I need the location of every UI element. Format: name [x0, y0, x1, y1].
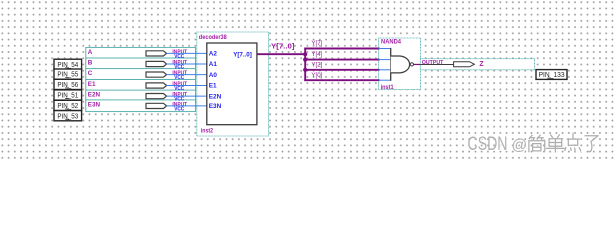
svg-text:@: @ [512, 137, 528, 154]
svg-text:Y[7]: Y[7] [311, 40, 322, 47]
svg-text:E1: E1 [209, 83, 217, 90]
svg-text:OUTPUT: OUTPUT [422, 60, 444, 66]
svg-text:NAND4: NAND4 [381, 39, 401, 46]
wire E1: input pin to decoder port E1 [166, 85, 207, 87]
bus tap wire Y[4] [304, 59, 379, 61]
input pin arrow shape (A) [146, 51, 167, 56]
svg-text:Y[7..0]: Y[7..0] [233, 51, 252, 58]
location assignment box PIN_53 [54, 111, 82, 121]
svg-text:Z: Z [479, 61, 484, 68]
svg-text:A1: A1 [209, 61, 218, 68]
svg-text:Y[4]: Y[4] [311, 51, 322, 58]
svg-text:Y[0]: Y[0] [311, 72, 322, 79]
svg-text:B: B [88, 59, 93, 66]
NAND4 input bar (extended body edge) [390, 48, 392, 81]
location assignment box PIN_54 [54, 59, 82, 69]
svg-text:A2: A2 [209, 51, 218, 58]
input pin arrow shape (E3N) [146, 103, 167, 108]
svg-text:E2N: E2N [88, 92, 101, 99]
input pin arrow shape (E2N) [146, 94, 167, 99]
svg-text:E3N: E3N [209, 103, 222, 110]
NAND4 input pin stub 1 [379, 48, 391, 50]
bus vertical segment [304, 48, 306, 82]
svg-text:CSDN: CSDN [468, 134, 508, 155]
NAND4 inst1 bounding box [379, 38, 421, 90]
bus tap wire Y[0] [304, 79, 379, 81]
bus wire Y[7..0] from decoder output [257, 53, 305, 55]
location assignment box PIN_133 [536, 70, 567, 80]
input pin arrow shape (B) [146, 61, 167, 66]
svg-text:VCC: VCC [174, 107, 184, 113]
location assignment box PIN_56 [54, 79, 82, 89]
bus junction dot at main bus [303, 52, 307, 56]
svg-text:E2N: E2N [209, 93, 222, 100]
svg-text:C: C [88, 70, 93, 77]
wire from NAND4 output to output pin [414, 63, 421, 65]
location assignment box PIN_52 [54, 100, 82, 110]
svg-text:inst2: inst2 [201, 128, 214, 135]
input pin symbol A bounding box [86, 47, 196, 59]
svg-text:A: A [88, 49, 93, 56]
wire A: input pin to decoder port A2 [166, 52, 207, 54]
location assignment box PIN_51 [54, 90, 82, 100]
bus junction dot at Y[4] tap [303, 58, 307, 62]
input pin symbol B bounding box [86, 58, 196, 70]
bus tap wire Y[2] [304, 69, 379, 71]
input pin symbol E3N bounding box [86, 100, 196, 112]
NAND4 input pin stub 2 [379, 59, 391, 61]
watermark chinese characters [529, 133, 599, 153]
decoder38 body rectangle [207, 43, 257, 125]
svg-text:Y[7..0]: Y[7..0] [271, 44, 295, 51]
svg-text:E1: E1 [88, 81, 96, 88]
wire B: input pin to decoder port A1 [166, 63, 207, 65]
wire E2N: input pin to decoder port E2N [166, 95, 207, 97]
location assignment box PIN_55 [54, 69, 82, 79]
input pin symbol E1 bounding box [86, 80, 196, 92]
NAND4 input pin stub 4 [379, 79, 391, 81]
bus junction dot at Y[2] tap [303, 68, 307, 72]
wire E3N: input pin to decoder port E3N [166, 105, 207, 107]
svg-text:A0: A0 [209, 72, 218, 79]
input pin symbol C bounding box [86, 69, 196, 81]
NAND4 inversion bubble [410, 63, 413, 66]
bus tap wire Y[7] [304, 48, 379, 50]
output pin arrow shape [454, 62, 475, 67]
input pin symbol E2N bounding box [86, 90, 196, 102]
output pin lead line [420, 63, 453, 65]
output pin Z bounding box [420, 59, 534, 70]
NAND4 gate body [391, 56, 410, 73]
NAND4 input pin stub 3 [379, 69, 391, 71]
decoder38 inst2 bounding box [197, 32, 269, 136]
input pin arrow shape (E1) [146, 83, 167, 88]
watermark CSDN @ [468, 134, 529, 156]
input pin arrow shape (C) [146, 72, 167, 77]
svg-text:E3N: E3N [88, 101, 101, 108]
svg-text:Y[2]: Y[2] [311, 61, 322, 68]
svg-text:inst1: inst1 [381, 84, 394, 91]
svg-text:decoder38: decoder38 [199, 34, 227, 41]
svg-text:PIN_133: PIN_133 [539, 70, 565, 79]
svg-text:VCC: VCC [174, 75, 184, 81]
wire C: input pin to decoder port A0 [166, 74, 207, 76]
